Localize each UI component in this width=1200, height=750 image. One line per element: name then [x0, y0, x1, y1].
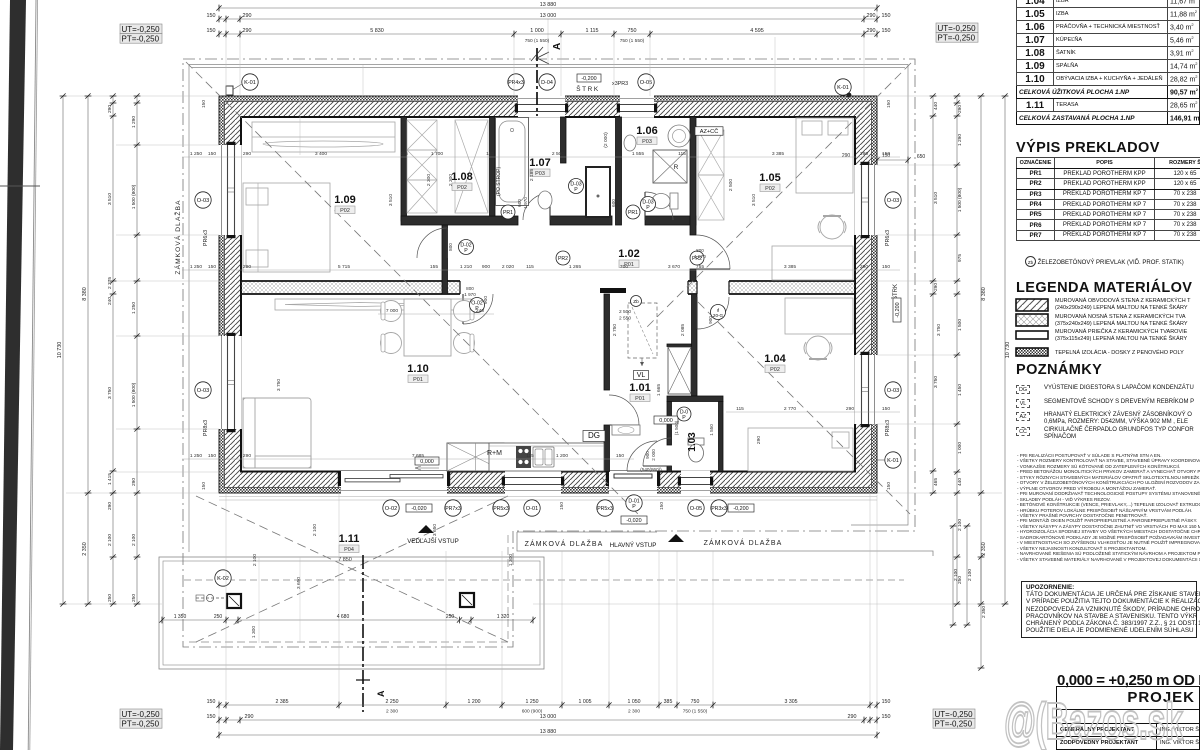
svg-text:7 850: 7 850	[338, 557, 352, 563]
sink 1.06	[624, 135, 636, 151]
wall under 1.08/1.07 (corridor side)	[401, 216, 696, 225]
shower box 1.07	[586, 167, 610, 217]
svg-text:440: 440	[933, 102, 939, 110]
svg-text:2 000: 2 000	[651, 449, 656, 461]
svg-text:PR2: PR2	[558, 256, 568, 262]
text po strop	[496, 166, 502, 196]
svg-text:PR7x3: PR7x3	[445, 506, 461, 512]
svg-text:1 555: 1 555	[632, 151, 645, 157]
svg-text:2 550: 2 550	[619, 316, 631, 322]
svg-text:1 250: 1 250	[526, 699, 539, 705]
dim right 10730	[1002, 93, 1011, 606]
svg-text:900: 900	[708, 316, 713, 324]
svg-text:3 750: 3 750	[936, 324, 942, 337]
svg-text:R: R	[674, 164, 679, 171]
svg-text:1 665: 1 665	[656, 384, 662, 397]
dim right bottom extra	[950, 523, 987, 670]
svg-text:1 265: 1 265	[569, 264, 582, 270]
wardrobe boxes 1.08	[407, 120, 488, 213]
svg-text:1.07: 1.07	[529, 157, 550, 169]
note CČ	[1016, 427, 1030, 436]
door swing 1.09	[417, 228, 447, 258]
svg-text:1 000: 1 000	[530, 28, 544, 34]
svg-text:900: 900	[483, 296, 489, 304]
AZ+CC label	[695, 127, 723, 136]
svg-text:K-01: K-01	[837, 85, 849, 91]
legend swatch 1	[1015, 298, 1049, 312]
bed 1.09	[243, 183, 330, 272]
leader PR1 b	[626, 205, 640, 219]
svg-text:1 005: 1 005	[579, 699, 592, 705]
svg-text:115: 115	[400, 151, 408, 157]
svg-text:R+M: R+M	[487, 450, 502, 457]
svg-text:290: 290	[243, 264, 251, 270]
svg-text:3 385: 3 385	[772, 151, 785, 157]
svg-text:150: 150	[886, 482, 892, 490]
svg-text:750 (1 550): 750 (1 550)	[683, 709, 708, 715]
svg-text:20-G: 20-G	[713, 313, 724, 318]
svg-text:155: 155	[430, 264, 438, 270]
svg-text:-0,200: -0,200	[733, 506, 748, 512]
svg-text:290: 290	[243, 453, 251, 459]
terrace sliding door (room 1.10)	[338, 471, 450, 494]
svg-text:150: 150	[882, 406, 890, 412]
svg-text:Zb: Zb	[633, 299, 639, 305]
svg-text:150: 150	[616, 453, 624, 459]
dim left 10730	[57, 93, 66, 606]
svg-text:150: 150	[886, 100, 892, 108]
svg-text:2 375: 2 375	[107, 277, 113, 289]
load-bearing mid wall east segment	[729, 281, 855, 294]
door swing 1.05	[696, 235, 730, 269]
legend swatch 3	[1015, 330, 1049, 341]
poznamky heading	[1016, 362, 1102, 378]
svg-text:3 400: 3 400	[315, 151, 328, 157]
svg-text:1.05: 1.05	[759, 172, 780, 184]
svg-text:K-02: K-02	[217, 576, 229, 582]
svg-text:1 450: 1 450	[957, 384, 963, 396]
legend text 1	[1055, 298, 1191, 311]
svg-text:(540(860)): (540(860))	[640, 467, 662, 472]
zelezobetonovy footnote	[1025, 256, 1184, 267]
svg-text:PT=-0,250: PT=-0,250	[122, 719, 160, 728]
svg-text:ŠTRK: ŠTRK	[576, 84, 599, 93]
svg-text:1 200: 1 200	[556, 453, 569, 459]
svg-text:385: 385	[664, 699, 673, 705]
svg-text:O-05: O-05	[640, 80, 652, 86]
leader D-01 P 1.03	[677, 407, 691, 421]
dim int texts vertical	[276, 132, 942, 566]
door swing wc 1.03	[643, 438, 671, 466]
svg-text:2 185: 2 185	[529, 169, 535, 182]
washbasin 1.01	[612, 425, 640, 435]
svg-text:P: P	[646, 205, 650, 211]
drip edge lines below wall	[219, 497, 877, 501]
svg-text:(1 500): (1 500)	[674, 420, 679, 435]
dim right row3	[954, 93, 963, 606]
partition 1.10 | 1.01	[604, 294, 610, 472]
svg-text:250: 250	[131, 594, 137, 602]
svg-text:1 250: 1 250	[190, 453, 203, 459]
leader D-03 1.06	[641, 197, 656, 212]
extension lines interior	[300, 19, 775, 155]
load-bearing mid wall west segment	[241, 281, 460, 294]
svg-text:PT=-0,250: PT=-0,250	[938, 33, 976, 42]
svg-text:1 115: 1 115	[585, 28, 598, 34]
room 1.09 label	[334, 194, 355, 214]
leader O-03 left b	[195, 382, 211, 398]
svg-text:800: 800	[448, 243, 453, 251]
sofa 1.10	[243, 398, 311, 468]
svg-text:PR1: PR1	[628, 210, 638, 216]
svg-text:13 880: 13 880	[540, 2, 557, 8]
room 1.05 label	[759, 172, 780, 192]
room 1.07 label	[529, 157, 550, 177]
svg-text:HLAVNÝ VSTUP: HLAVNÝ VSTUP	[610, 542, 657, 549]
partition 1.09 | 1.08	[401, 117, 407, 221]
roof outline dash-dot	[183, 59, 915, 647]
leader PR3x3	[711, 500, 727, 516]
bathtub 1.07	[496, 118, 529, 206]
dim left 8380	[82, 93, 91, 606]
svg-text:K-01: K-01	[887, 458, 899, 464]
wardrobe 1.09	[252, 122, 395, 152]
svg-text:1 415: 1 415	[107, 473, 113, 485]
kitchen counter	[489, 443, 604, 471]
svg-text:1.01: 1.01	[629, 382, 650, 394]
svg-text:-0,020: -0,020	[626, 518, 641, 524]
dim bottom sub	[386, 709, 708, 715]
svg-text:ZÁMKOVÁ DLAŽBA: ZÁMKOVÁ DLAŽBA	[525, 539, 604, 548]
svg-text:150: 150	[659, 502, 665, 510]
dim terrace	[159, 614, 535, 623]
svg-text:2 100: 2 100	[312, 524, 318, 537]
svg-text:1 300: 1 300	[508, 554, 514, 567]
window top wall (bathroom 1.07)	[515, 95, 568, 118]
svg-text:2 500: 2 500	[552, 151, 565, 157]
svg-text:1.06: 1.06	[636, 125, 657, 137]
strk right	[892, 284, 901, 322]
svg-text:10 730: 10 730	[1005, 342, 1011, 359]
svg-text:8 380: 8 380	[981, 287, 987, 301]
room 1.01 label	[629, 382, 650, 402]
svg-text:1 300: 1 300	[251, 626, 257, 639]
svg-text:1 500 (800): 1 500 (800)	[131, 184, 137, 209]
door swing main entrance	[627, 441, 657, 471]
window O-03 left wall (room 1.10)	[218, 333, 242, 432]
svg-text:d: d	[717, 307, 720, 312]
scan page edge bar	[0, 0, 40, 750]
svg-text:465: 465	[933, 478, 939, 486]
svg-text:2 100: 2 100	[131, 534, 137, 546]
svg-text:290: 290	[107, 502, 113, 510]
note VL	[1016, 399, 1030, 408]
svg-text:750 (1 550): 750 (1 550)	[620, 38, 645, 44]
leader D-01	[626, 495, 642, 511]
partition bathtub 1.07 west	[490, 117, 496, 216]
svg-text:0,000: 0,000	[659, 418, 673, 424]
terrace diagonal 2	[196, 496, 508, 642]
svg-text:P02: P02	[770, 367, 780, 373]
svg-text:150: 150	[208, 151, 216, 157]
leader O-03 right b	[885, 382, 901, 398]
elev 0.000 hall	[654, 416, 678, 424]
svg-text:2 500: 2 500	[619, 309, 631, 315]
leader O-03 left a	[195, 192, 211, 208]
svg-text:1 250: 1 250	[131, 302, 137, 314]
svg-text:115: 115	[526, 453, 534, 459]
legend swatch 4	[1015, 347, 1049, 358]
svg-text:2 300: 2 300	[386, 709, 398, 715]
svg-text:150: 150	[201, 100, 207, 108]
svg-text:755: 755	[696, 264, 704, 270]
svg-text:O-02: O-02	[385, 506, 397, 512]
room 1.11 label	[338, 533, 359, 563]
leader K-01 top left	[226, 74, 258, 95]
svg-text:1 000: 1 000	[957, 442, 963, 454]
svg-text:150: 150	[882, 13, 891, 19]
dim int row mid	[182, 264, 900, 270]
svg-text:1.02: 1.02	[618, 248, 639, 260]
wc toilet 1.03	[688, 438, 704, 462]
svg-text:2 100: 2 100	[957, 519, 963, 531]
svg-text:O-03: O-03	[197, 198, 209, 204]
leader D-03 1.07	[569, 179, 584, 194]
terrace paving border	[159, 557, 544, 669]
svg-text:3 510: 3 510	[388, 194, 394, 207]
svg-text:P02: P02	[765, 186, 775, 192]
dim right 8380	[978, 93, 987, 606]
svg-text:13 000: 13 000	[540, 13, 557, 19]
svg-text:1 500 (800): 1 500 (800)	[957, 187, 963, 212]
svg-text:150: 150	[882, 264, 890, 270]
office chair 1.05	[818, 215, 846, 239]
leader K-01 bottom right	[877, 452, 901, 468]
legenda materialov heading	[1016, 280, 1192, 296]
partition 1.01 | 1.04 with closet	[667, 294, 697, 396]
svg-text:-0,020: -0,020	[411, 506, 426, 512]
watermark bazos	[1004, 692, 1183, 750]
leader PR1 a	[501, 205, 515, 219]
svg-text:150: 150	[201, 482, 207, 490]
svg-text:150: 150	[882, 151, 890, 157]
svg-text:P: P	[464, 248, 468, 254]
svg-text:VL: VL	[637, 372, 646, 379]
room 1.10 label	[407, 363, 428, 383]
svg-text:2 300: 2 300	[426, 174, 432, 187]
svg-text:1.10: 1.10	[407, 363, 428, 375]
room 1.06 label	[636, 125, 657, 145]
leader Zb	[619, 296, 642, 322]
svg-text:1 050: 1 050	[628, 699, 641, 705]
svg-text:1 550: 1 550	[709, 424, 714, 436]
svg-text:150: 150	[207, 699, 216, 705]
svg-text:1.11: 1.11	[339, 533, 360, 545]
note DG	[1016, 385, 1030, 394]
svg-text:1 970: 1 970	[523, 197, 528, 209]
door swing 1.04	[697, 297, 729, 329]
svg-text:O-01: O-01	[526, 506, 538, 512]
legend text 3	[1055, 329, 1187, 342]
svg-text:1 320: 1 320	[497, 614, 510, 620]
svg-text:290: 290	[848, 714, 857, 720]
leader D-02 1.10	[470, 298, 485, 313]
door swing 1.06	[645, 192, 673, 220]
leader PR6x3 left b	[203, 420, 209, 436]
window top wall (room 1.06)	[617, 95, 657, 118]
elev -0,200 right	[728, 504, 754, 512]
svg-text:PR5x3: PR5x3	[597, 506, 613, 512]
bed 1.05	[796, 118, 853, 193]
svg-text:A: A	[552, 43, 563, 50]
section line A top	[531, 43, 563, 116]
svg-text:P03: P03	[535, 171, 545, 177]
dining chair 3	[454, 301, 475, 322]
svg-text:115: 115	[736, 406, 744, 412]
svg-text:2 020: 2 020	[502, 264, 515, 270]
svg-text:290: 290	[867, 13, 876, 19]
svg-text:0,000: 0,000	[420, 459, 434, 465]
dining chair 1	[381, 301, 402, 322]
partition 1.06 | 1.05	[690, 117, 696, 235]
UT PT label top-left	[120, 24, 162, 43]
svg-text:3 750: 3 750	[107, 387, 113, 399]
svg-text:2 100: 2 100	[953, 569, 959, 581]
svg-text:UT=-0,250: UT=-0,250	[935, 710, 974, 719]
VL dashed box	[628, 303, 657, 366]
svg-text:150: 150	[207, 28, 216, 34]
paving dashed line long	[184, 579, 904, 581]
svg-text:150: 150	[208, 453, 216, 459]
partition 1.05 lower stub	[690, 269, 696, 281]
leader PR5x3 a	[493, 500, 509, 516]
svg-text:7 000: 7 000	[386, 308, 399, 314]
svg-text:1 700: 1 700	[431, 151, 444, 157]
svg-text:150: 150	[882, 699, 891, 705]
svg-text:290: 290	[846, 406, 854, 412]
leader K-01 top right	[835, 79, 852, 98]
svg-text:1 970: 1 970	[694, 254, 706, 259]
svg-text:2 500: 2 500	[728, 179, 734, 192]
hlavny vstup arrow	[610, 534, 684, 549]
svg-text:250: 250	[446, 614, 455, 620]
dim right 650	[842, 153, 926, 163]
svg-text:290: 290	[842, 153, 851, 159]
strk top	[576, 74, 601, 93]
svg-text:UT=-0,250: UT=-0,250	[122, 25, 161, 34]
svg-text:1 500 (800): 1 500 (800)	[131, 382, 137, 407]
kitchen fridge R+M box	[447, 443, 504, 471]
label DG box	[583, 431, 605, 442]
svg-text:PR4x3: PR4x3	[508, 80, 524, 86]
dim int row 104	[726, 406, 900, 412]
svg-text:1 290: 1 290	[957, 134, 963, 146]
dim top 13880	[216, 2, 879, 11]
svg-text:PR6x3: PR6x3	[885, 230, 891, 246]
svg-text:8 380: 8 380	[82, 287, 88, 301]
section line A bottom	[356, 555, 386, 712]
legend text 4	[1055, 350, 1184, 356]
svg-text:1.09: 1.09	[334, 194, 355, 206]
terrace column 2	[460, 593, 474, 607]
svg-text:800: 800	[696, 248, 704, 253]
svg-text:1.03: 1.03	[687, 432, 698, 452]
svg-text:2 385: 2 385	[276, 699, 289, 705]
svg-text:3 385: 3 385	[784, 264, 797, 270]
svg-text:4 680: 4 680	[337, 614, 350, 620]
wall stub over washbasin 1.01	[600, 288, 626, 293]
dim left row4	[131, 93, 140, 606]
svg-text:1 250: 1 250	[190, 264, 203, 270]
kitchen stove	[516, 446, 531, 468]
leader PR6x3 left a	[203, 230, 209, 246]
svg-text:5 715: 5 715	[338, 264, 351, 270]
svg-text:5 830: 5 830	[370, 28, 384, 34]
svg-text:PT=-0,250: PT=-0,250	[122, 34, 160, 43]
svg-text:3 750: 3 750	[276, 379, 282, 392]
UT PT label bottom-right	[933, 709, 975, 728]
svg-text:1 250: 1 250	[190, 151, 203, 157]
svg-text:700: 700	[620, 264, 628, 270]
svg-text:290: 290	[131, 478, 137, 486]
svg-text:P02: P02	[340, 208, 350, 214]
svg-text:ŠTRK: ŠTRK	[892, 284, 899, 300]
svg-text:1 970: 1 970	[617, 197, 622, 209]
vypis prekladov heading	[1016, 140, 1160, 156]
dim right row4	[930, 93, 939, 495]
svg-text:250: 250	[107, 594, 113, 602]
svg-text:AZ+CČ: AZ+CČ	[700, 128, 719, 135]
svg-text:4 595: 4 595	[750, 28, 764, 34]
svg-text:3 510: 3 510	[933, 192, 939, 204]
svg-text:2 100: 2 100	[252, 554, 258, 567]
door swing 1.02 to 1.10	[463, 294, 493, 324]
svg-text:A: A	[376, 690, 386, 697]
svg-text:2 750: 2 750	[612, 324, 618, 337]
svg-text:2 300: 2 300	[628, 709, 640, 715]
svg-text:150: 150	[882, 714, 891, 720]
svg-text:290: 290	[243, 13, 252, 19]
svg-text:UT=-0,250: UT=-0,250	[122, 710, 161, 719]
svg-text:3 650: 3 650	[296, 577, 302, 590]
extension lines left	[66, 96, 230, 604]
svg-text:3 305: 3 305	[785, 699, 798, 705]
svg-text:900: 900	[645, 451, 650, 459]
svg-text:1.08: 1.08	[451, 171, 472, 183]
window bottom wall (wc 1.03)	[678, 471, 713, 494]
svg-text:240: 240	[476, 308, 484, 314]
gravel strip solid outline	[189, 65, 908, 553]
svg-text:800: 800	[466, 286, 474, 291]
dim bottom 13880	[216, 729, 879, 738]
svg-text:PR8x3: PR8x3	[885, 420, 891, 436]
svg-text:3 650: 3 650	[432, 524, 438, 537]
mid wall jamb at 1.04 door	[688, 281, 697, 294]
leader O-03 right a	[885, 192, 901, 208]
svg-text:2 300: 2 300	[448, 174, 454, 187]
wc room 1.03 walls	[667, 396, 723, 472]
svg-text:P01: P01	[635, 396, 645, 402]
svg-text:D-04: D-04	[541, 80, 553, 86]
svg-text:-0,200: -0,200	[581, 76, 596, 82]
legend text 2	[1055, 314, 1188, 327]
room 1.03 label	[687, 432, 698, 452]
leader PR6x3 right	[885, 230, 891, 436]
leader PR2 b	[690, 251, 704, 265]
K-02 leader	[196, 570, 231, 602]
desk 1.05	[772, 246, 853, 280]
svg-text:P04: P04	[344, 547, 354, 553]
